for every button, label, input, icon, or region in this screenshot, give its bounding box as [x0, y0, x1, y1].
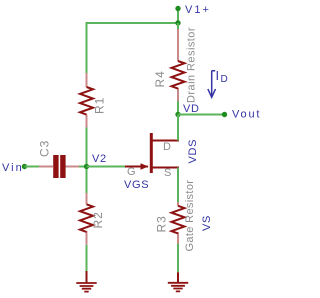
svg-text:Drain Resistor: Drain Resistor — [186, 27, 198, 103]
svg-text:Gate Resistor: Gate Resistor — [184, 180, 196, 252]
resistor R2 label — [91, 211, 105, 228]
resistor R4 leads — [177, 25, 179, 101]
svg-text:R3: R3 — [155, 215, 169, 232]
svg-text:I: I — [216, 68, 220, 83]
svg-text:V1+: V1+ — [185, 4, 211, 16]
node Vout terminal dot — [222, 112, 227, 117]
wire R4 bottom to VD — [177, 101, 179, 115]
node Vin terminal dot — [22, 164, 27, 169]
current ID label — [216, 68, 228, 85]
transistor Q1 source pin label S — [164, 167, 171, 179]
svg-text:VS: VS — [201, 215, 213, 231]
capacitor C3 plates — [53, 155, 65, 178]
wire V1+ stub — [177, 9, 179, 24]
resistor R2 body — [80, 204, 93, 232]
resistor R4 name Drain Resistor (rotated) — [186, 27, 198, 103]
ground right stem — [177, 272, 179, 282]
resistor R4 body — [172, 61, 185, 89]
wire VD to drain — [177, 115, 179, 141]
capacitor C3 leads — [39, 166, 79, 168]
svg-text:R1: R1 — [93, 97, 107, 114]
ground left stem — [86, 271, 88, 283]
svg-text:Vin: Vin — [2, 162, 24, 174]
svg-text:G: G — [127, 166, 136, 178]
node V1+ label — [185, 4, 211, 16]
current ID arrow — [208, 71, 216, 98]
transistor Q1 gate pin label G — [127, 166, 136, 178]
resistor R2 leads — [86, 193, 88, 245]
transistor Q1 drain pin label D — [163, 141, 171, 153]
node V2 label — [92, 153, 107, 165]
wire VD to Vout — [178, 114, 225, 116]
wire R3 to ground — [177, 244, 179, 273]
resistor R3 leads — [177, 202, 179, 244]
svg-text:R2: R2 — [91, 211, 105, 228]
resistor R3 label — [155, 215, 169, 232]
node VD junction dot — [175, 112, 180, 117]
wire Vin to C3 — [25, 166, 40, 168]
node V1+ terminal dot — [175, 6, 180, 11]
node VDS label (rotated) — [187, 139, 199, 164]
capacitor C3 label — [38, 140, 52, 157]
svg-text:D: D — [221, 74, 228, 85]
svg-text:VGS: VGS — [124, 179, 149, 191]
wire source down — [177, 168, 179, 203]
svg-text:C3: C3 — [38, 140, 52, 157]
wire C3 to V2 — [79, 166, 87, 168]
node VGS label — [124, 179, 149, 191]
junction top rail / R4 — [175, 20, 180, 25]
resistor R4 label — [153, 70, 167, 87]
node VS label (rotated) — [201, 215, 213, 231]
svg-text:VD: VD — [183, 103, 200, 115]
svg-text:R4: R4 — [153, 70, 167, 87]
svg-text:S: S — [164, 167, 171, 179]
resistor R3 name Gate Resistor (rotated) — [184, 180, 196, 252]
node Vin label — [2, 162, 24, 174]
svg-text:VDS: VDS — [187, 139, 199, 164]
resistor R1 body — [80, 87, 93, 115]
wire left vertical middle — [86, 128, 88, 194]
svg-text:Vout: Vout — [232, 109, 261, 121]
transistor Q1 drain line — [153, 140, 180, 142]
ground right bars — [168, 283, 188, 292]
ground left bars — [76, 283, 96, 292]
wire R4 top — [177, 23, 179, 29]
wire left vertical upper — [86, 22, 88, 73]
wire V2 to gate — [87, 166, 126, 168]
resistor R1 label — [93, 97, 107, 114]
resistor R1 leads — [86, 73, 88, 128]
node V2 junction dot — [84, 164, 89, 169]
svg-text:D: D — [163, 141, 171, 153]
transistor Q1 gate lead with arrow — [125, 163, 149, 169]
node Vout label — [232, 109, 261, 121]
wire top rail — [87, 22, 179, 24]
transistor Q1 source line — [153, 167, 180, 169]
node VD label — [183, 103, 200, 115]
wire R2 to ground — [86, 245, 88, 271]
resistor R3 body — [172, 206, 185, 234]
transistor Q1 body bar — [150, 133, 153, 173]
svg-text:V2: V2 — [92, 153, 107, 165]
